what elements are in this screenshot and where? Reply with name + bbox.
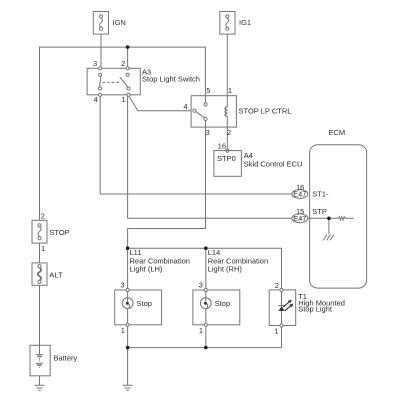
svg-text:1: 1 [274, 327, 278, 336]
svg-text:1: 1 [199, 326, 203, 335]
svg-text:STOP LP CTRL: STOP LP CTRL [239, 107, 292, 116]
svg-text:3: 3 [199, 281, 203, 290]
svg-text:5: 5 [206, 86, 210, 95]
svg-text:ECM: ECM [329, 128, 346, 137]
svg-text:Battery: Battery [54, 353, 78, 362]
svg-text:2: 2 [41, 212, 45, 221]
svg-text:16: 16 [218, 142, 226, 151]
svg-text:4: 4 [94, 95, 98, 104]
svg-text:1: 1 [41, 244, 45, 253]
svg-text:2: 2 [121, 59, 125, 68]
svg-text:3: 3 [206, 128, 210, 137]
svg-text:Light (LH): Light (LH) [130, 265, 163, 274]
svg-text:ST1-: ST1- [312, 189, 329, 198]
svg-text:E47: E47 [293, 214, 306, 223]
svg-text:4: 4 [183, 102, 187, 111]
svg-text:3: 3 [93, 59, 97, 68]
svg-text:STP0: STP0 [217, 154, 236, 163]
svg-text:1: 1 [121, 95, 125, 104]
svg-text:Skid Control ECU: Skid Control ECU [244, 159, 303, 168]
svg-text:Stop: Stop [215, 299, 230, 308]
svg-text:1: 1 [121, 326, 125, 335]
svg-text:Stop Light: Stop Light [298, 305, 333, 314]
svg-text:2: 2 [227, 128, 231, 137]
svg-text:2: 2 [275, 281, 279, 290]
svg-text:STOP: STOP [49, 228, 69, 237]
svg-text:IG1: IG1 [239, 18, 251, 27]
svg-text:STP: STP [312, 207, 327, 216]
svg-text:Stop: Stop [137, 299, 152, 308]
svg-text:E47: E47 [293, 190, 306, 199]
svg-text:IGN: IGN [113, 18, 126, 27]
svg-text:1: 1 [228, 86, 232, 95]
svg-text:ALT: ALT [49, 270, 63, 279]
svg-text:Stop Light Switch: Stop Light Switch [142, 75, 200, 84]
svg-text:3: 3 [120, 281, 124, 290]
svg-text:Light (RH): Light (RH) [208, 265, 243, 274]
